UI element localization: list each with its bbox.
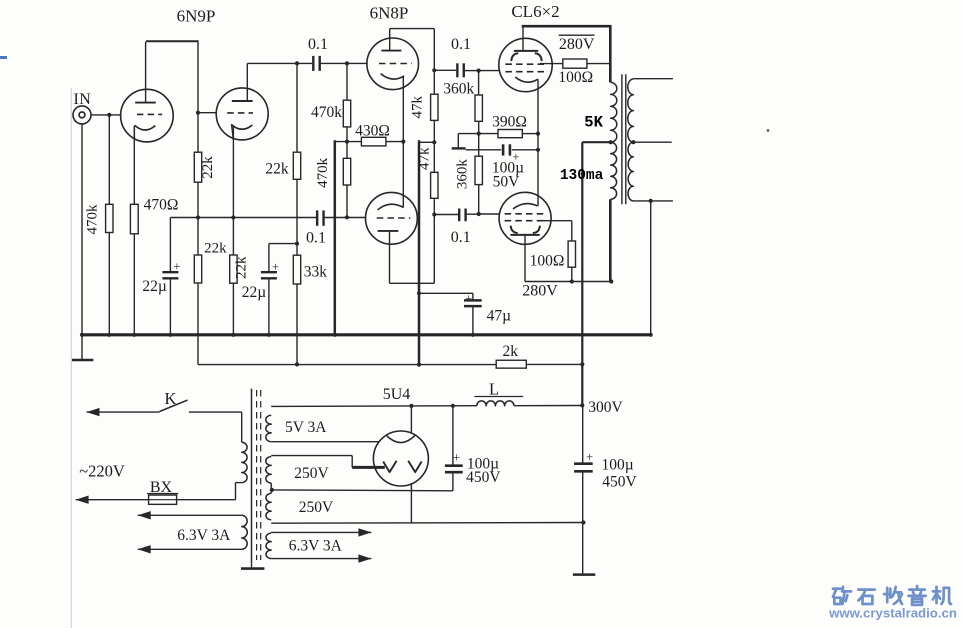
svg-text:100Ω: 100Ω xyxy=(530,253,565,270)
svg-text:CL6×2: CL6×2 xyxy=(511,2,559,21)
svg-text:280V: 280V xyxy=(522,282,558,299)
svg-text:22k: 22k xyxy=(204,241,227,257)
svg-text:~220V: ~220V xyxy=(79,462,125,481)
svg-text:300V: 300V xyxy=(588,399,623,416)
svg-text:470k: 470k xyxy=(311,104,342,121)
svg-text:6N9P: 6N9P xyxy=(177,7,216,26)
svg-text:0.1: 0.1 xyxy=(451,36,471,53)
svg-text:0.1: 0.1 xyxy=(308,36,328,53)
svg-text:130ma: 130ma xyxy=(560,168,604,184)
svg-text:250V: 250V xyxy=(299,499,334,516)
svg-text:0.1: 0.1 xyxy=(306,230,326,247)
svg-text:2k: 2k xyxy=(503,343,519,360)
svg-text:+: + xyxy=(465,291,472,305)
svg-text:22k: 22k xyxy=(265,161,289,178)
svg-text:+: + xyxy=(586,450,593,464)
svg-text:470Ω: 470Ω xyxy=(144,197,179,214)
svg-text:IN: IN xyxy=(73,91,91,108)
svg-text:33k: 33k xyxy=(304,264,328,281)
svg-text:K: K xyxy=(164,389,176,408)
svg-text:L: L xyxy=(489,380,499,399)
svg-text:280V: 280V xyxy=(559,36,595,53)
svg-text:47k: 47k xyxy=(409,96,425,119)
svg-text:+: + xyxy=(272,260,279,274)
svg-text:430Ω: 430Ω xyxy=(355,123,390,140)
svg-text:5V 3A: 5V 3A xyxy=(285,419,327,436)
svg-text:6N8P: 6N8P xyxy=(370,4,409,23)
svg-text:+: + xyxy=(173,259,180,273)
svg-text:6.3V 3A: 6.3V 3A xyxy=(289,538,343,555)
svg-text:5U4: 5U4 xyxy=(383,386,411,403)
svg-text:6.3V 3A: 6.3V 3A xyxy=(177,527,231,544)
svg-text:0.1: 0.1 xyxy=(451,229,471,246)
svg-text:+: + xyxy=(453,450,460,465)
svg-text:250V: 250V xyxy=(294,465,329,482)
svg-text:5K: 5K xyxy=(584,114,603,132)
svg-text:360k: 360k xyxy=(454,159,470,190)
svg-text:47k: 47k xyxy=(416,147,432,170)
svg-text:22k: 22k xyxy=(234,256,250,279)
svg-text:22k: 22k xyxy=(200,156,216,179)
svg-text:470k: 470k xyxy=(84,204,100,235)
svg-text:50V: 50V xyxy=(493,174,521,191)
svg-text:22µ: 22µ xyxy=(142,278,167,295)
svg-text:450V: 450V xyxy=(466,469,501,486)
svg-text:390Ω: 390Ω xyxy=(492,114,527,131)
svg-text:www.crystalradio.cn: www.crystalradio.cn xyxy=(828,606,957,621)
svg-text:450V: 450V xyxy=(602,473,637,490)
svg-text:470k: 470k xyxy=(315,157,331,188)
svg-text:100Ω: 100Ω xyxy=(558,69,593,86)
svg-text:360k: 360k xyxy=(443,81,474,98)
svg-text:47µ: 47µ xyxy=(487,308,512,325)
svg-text:22µ: 22µ xyxy=(242,284,267,301)
svg-text:+: + xyxy=(512,150,519,164)
svg-text:100µ: 100µ xyxy=(602,456,634,473)
